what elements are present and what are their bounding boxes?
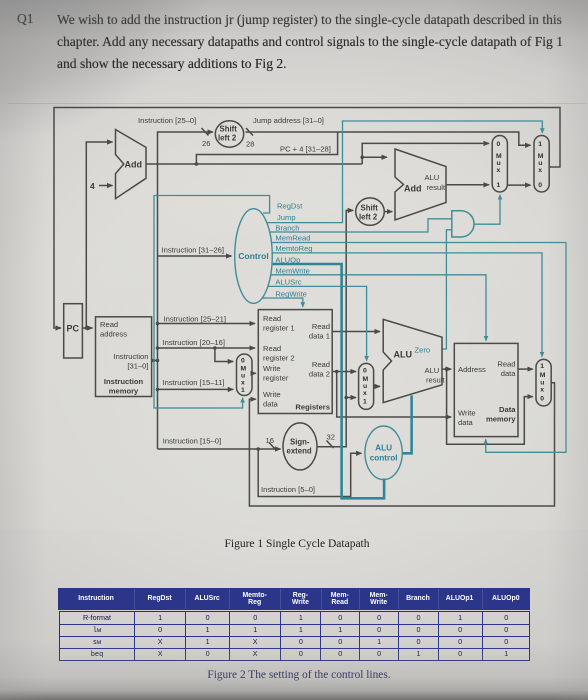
wire Add2 branch target output to branch mux input 1 (446, 184, 489, 186)
label mux mem-to-reg (540, 363, 546, 403)
svg-text:data 1: data 1 (309, 332, 330, 341)
label bit width 28 (246, 140, 254, 149)
node instruction 25-21 tap (156, 322, 160, 326)
svg-text:Address: Address (458, 365, 486, 374)
svg-text:ALU: ALU (425, 366, 440, 375)
label Add1 (125, 160, 143, 170)
label Add2 (404, 184, 422, 194)
svg-text:data 2: data 2 (309, 370, 330, 379)
svg-text:16: 16 (266, 436, 274, 445)
svg-text:1: 1 (497, 182, 501, 189)
label registers ports (263, 314, 330, 412)
table header row (58, 588, 530, 610)
svg-text:[31–0]: [31–0] (127, 362, 148, 371)
sign extend oval (283, 423, 317, 470)
label shift left 2 jump (218, 125, 237, 143)
wire ALUOp control bus to ALU control (272, 264, 384, 498)
svg-text:result: result (426, 376, 445, 385)
svg-text:u: u (363, 383, 367, 390)
svg-text:Instruction: Instruction (104, 377, 144, 386)
svg-text:M: M (538, 153, 544, 160)
svg-text:0: 0 (538, 182, 542, 189)
svg-text:Instruction [25–21]: Instruction [25–21] (164, 315, 226, 324)
wire ALU result around data memory to mem-to-reg mux input 0 (447, 369, 533, 444)
svg-text:register 2: register 2 (263, 354, 295, 363)
label ALUOp (275, 256, 300, 265)
svg-text:result: result (427, 183, 446, 192)
wire ALUSrc control to ALU source mux select (268, 286, 367, 360)
wire Jump control to jump mux select (267, 121, 543, 223)
node instruction 15-0 junction to opcode field (256, 447, 260, 451)
label mux ALU source (363, 368, 369, 406)
node PC+4 junction at adder output (195, 162, 199, 166)
label ALU control (370, 444, 398, 463)
svg-text:x: x (538, 167, 542, 174)
svg-text:Read: Read (100, 320, 118, 329)
label Branch (275, 224, 299, 233)
wire instruction memory output Instruction [31-0] (152, 360, 158, 362)
svg-text:RegWrite: RegWrite (275, 290, 307, 299)
wire read data 2 to data memory write data (337, 372, 452, 418)
wire ALU control output to ALU (402, 396, 411, 454)
svg-text:Instruction [5–0]: Instruction [5–0] (261, 485, 315, 494)
registers file (258, 310, 332, 414)
mux branch PCSrc (492, 136, 507, 193)
svg-text:Shift: Shift (361, 204, 379, 213)
svg-text:ALU: ALU (394, 350, 413, 360)
wire branch shift left 2 output to Add2 (384, 211, 392, 213)
svg-text:ALU: ALU (425, 173, 440, 182)
svg-text:1: 1 (538, 141, 542, 148)
bit-width slash 16 (269, 443, 276, 451)
node instruction 15-11 tap (156, 388, 160, 392)
adder Add2 branch target (395, 149, 446, 220)
label data memory ports (458, 360, 516, 428)
wire Add PC+4 output to Add2 and branch mux (146, 143, 489, 164)
label bit width 16 (266, 436, 274, 445)
svg-text:data: data (458, 418, 474, 427)
table row R-format (60, 612, 135, 624)
svg-text:Read: Read (312, 360, 330, 369)
label Jump address [31-0] (253, 116, 324, 125)
label MemWrite (275, 267, 309, 276)
wire Branch control to AND gate input (270, 219, 452, 232)
svg-text:MemWrite: MemWrite (275, 267, 309, 276)
node read data 2 junction (335, 370, 339, 374)
svg-text:M: M (496, 153, 502, 160)
svg-text:Data: Data (499, 405, 516, 414)
svg-text:data: data (501, 369, 517, 378)
label ALU result of Add2 (425, 173, 446, 192)
wire Instruction [20-16] to read register 2 (158, 347, 256, 349)
label bit width 26 (202, 139, 210, 148)
wire PC output to instruction memory read address (82, 327, 92, 329)
label RegWrite (275, 290, 307, 299)
wire AND gate output to branch mux select (473, 195, 500, 224)
wire read data 2 to ALU src mux input 0 (332, 371, 356, 373)
mux write register (237, 354, 253, 396)
svg-text:memory: memory (486, 415, 516, 424)
svg-text:0: 0 (363, 368, 367, 375)
svg-text:1: 1 (241, 387, 245, 394)
svg-text:Read: Read (497, 360, 515, 369)
svg-text:Registers: Registers (295, 403, 330, 412)
label Instruction [25-0] (138, 116, 196, 125)
svg-text:u: u (497, 160, 501, 167)
svg-text:address: address (100, 330, 127, 339)
node PC+4 junction before second adder (360, 155, 364, 159)
table row sw (60, 636, 135, 648)
AND gate branch (452, 211, 474, 237)
svg-text:1: 1 (540, 363, 544, 370)
wire Instruction [20-16] branch to write-register mux input 0 (215, 348, 233, 362)
svg-text:0: 0 (497, 141, 501, 148)
wire Instruction [5-0] to ALU control (258, 449, 361, 497)
svg-text:Add: Add (404, 184, 422, 194)
svg-text:u: u (540, 380, 544, 387)
label ALU (394, 350, 413, 360)
bit-width slash 26 (202, 128, 209, 136)
svg-text:ALUSrc: ALUSrc (275, 278, 301, 287)
svg-text:left 2: left 2 (359, 213, 378, 222)
svg-text:x: x (241, 380, 245, 387)
wire mem-to-reg mux output wrap-around to registers write data (249, 383, 554, 506)
wire RegDst control to write-register mux select (154, 196, 270, 409)
mux jump (534, 136, 549, 193)
wire Instruction [15-11] to write-register mux input 1 (158, 388, 234, 390)
label instruction memory ports (100, 320, 149, 396)
data memory (454, 343, 518, 436)
svg-text:Instruction [15–0]: Instruction [15–0] (163, 437, 221, 446)
wire RegWrite control to registers write enable (262, 298, 303, 307)
wire MemWrite control to data memory write port (271, 275, 486, 341)
mux mem-to-reg (536, 359, 551, 406)
wire sign extend output up to branch shift left 2 (317, 210, 353, 446)
node PC output junction (85, 326, 89, 330)
label Instruction [20-16] (163, 338, 225, 347)
label PC (67, 324, 80, 334)
wire ALU src mux output to ALU input (374, 385, 380, 387)
svg-text:x: x (363, 390, 367, 397)
wire data memory read data to mem-to-reg mux input 1 (518, 368, 533, 370)
wire MemtoReg control to mem-to-reg mux select (272, 253, 542, 357)
table body (59, 611, 530, 661)
node instruction bus junction dots (152, 359, 156, 363)
label Instruction [5-0] (261, 485, 315, 494)
wire MemRead control to data memory read port (272, 243, 567, 453)
svg-text:x: x (497, 167, 501, 174)
label Instruction [15-11] (163, 378, 225, 387)
svg-text:Write: Write (458, 409, 476, 418)
svg-text:control: control (370, 454, 398, 463)
wire PC to Add (PC+4) top input (86, 142, 112, 328)
node sign extend output junction to ALU mux (344, 396, 348, 400)
label sign extend (287, 438, 312, 456)
label shift left 2 branch (359, 204, 378, 222)
mux ALU source (359, 363, 374, 409)
label mux branch (496, 141, 502, 189)
wire Instruction [31-26] to Control (158, 255, 232, 257)
table row beq (60, 648, 135, 660)
svg-text:32: 32 (327, 433, 335, 442)
label mux jump (538, 141, 544, 189)
label RegDst (277, 202, 303, 211)
wire Instruction [25-21] to read register 1 (158, 323, 256, 325)
wire PC feedback loop from jump mux output around top to PC input (54, 108, 560, 329)
wire constant 4 into Add bottom input (99, 185, 113, 187)
svg-text:M: M (363, 376, 369, 383)
svg-text:x: x (540, 387, 544, 394)
wire Instruction [15-0] to sign extend (158, 448, 281, 450)
register PC (64, 304, 83, 358)
svg-text:M: M (540, 372, 546, 379)
svg-text:Read: Read (312, 322, 330, 331)
ALU control oval (365, 426, 402, 480)
instruction memory (96, 317, 152, 397)
svg-text:1: 1 (363, 399, 367, 406)
label Jump (277, 213, 296, 222)
svg-text:Read: Read (263, 344, 281, 353)
label Control (238, 251, 269, 261)
svg-text:u: u (241, 373, 245, 380)
wire ALU result to data memory address (442, 368, 451, 370)
label Instruction [31-26] (162, 246, 224, 255)
svg-text:ALU: ALU (375, 444, 392, 453)
svg-text:PC: PC (67, 324, 80, 334)
svg-text:Write: Write (263, 390, 281, 399)
ALU main (383, 319, 442, 402)
label mux write register (241, 358, 247, 395)
label PC + 4 [31-28] (280, 145, 331, 154)
svg-text:Sign-: Sign- (290, 438, 310, 447)
wire jump address [31-0] from shift left 2 to jump mux input 1 (246, 132, 531, 145)
wire instruction bus vertical Instruction [25-0] (158, 132, 214, 449)
svg-text:register: register (263, 374, 289, 383)
label ALUSrc (275, 278, 301, 287)
label MemtoReg (275, 244, 312, 253)
node ALU result junction (445, 367, 449, 371)
bit-width slash 32 (327, 441, 334, 449)
svg-text:Zero: Zero (415, 346, 431, 355)
adder Add1 PC+4 (116, 130, 147, 199)
wire write-register mux output to write register port (252, 372, 256, 374)
shift left 2 branch oval (356, 198, 385, 225)
control oval (235, 209, 273, 304)
svg-text:Instruction: Instruction (113, 352, 148, 361)
wire Zero flag from ALU to AND gate (442, 230, 452, 349)
wire read data 1 to ALU input (332, 331, 380, 333)
svg-text:Instruction [20–16]: Instruction [20–16] (163, 338, 225, 347)
svg-text:register 1: register 1 (263, 324, 295, 333)
svg-text:memory: memory (109, 387, 139, 396)
svg-text:Instruction [15–11]: Instruction [15–11] (163, 378, 225, 387)
svg-text:0: 0 (241, 358, 245, 365)
label ALU result (425, 366, 446, 385)
svg-text:data: data (263, 400, 279, 409)
shift left 2 jump oval (215, 121, 243, 147)
node instruction 20-16 tap (156, 346, 160, 350)
svg-text:0: 0 (540, 396, 544, 403)
label Zero (415, 346, 431, 355)
label bit width 32 (327, 433, 335, 442)
svg-text:extend: extend (287, 447, 312, 456)
wire PC+4 [31-28] tap to jump address (196, 132, 337, 164)
svg-text:u: u (538, 160, 542, 167)
bit-width slash 28 (246, 128, 253, 136)
svg-text:Write: Write (263, 364, 281, 373)
label MemRead (275, 234, 310, 243)
svg-text:M: M (241, 366, 247, 373)
label Instruction [25-21] (164, 315, 226, 324)
node instruction 20-16 junction (213, 346, 217, 350)
label Instruction [15-0] (163, 437, 221, 446)
label constant 4 (90, 181, 95, 191)
wire branch mux output to jump mux input 0 (507, 184, 530, 186)
wire sign extend branch to ALU src mux input 1 (346, 397, 356, 399)
table row lw (60, 624, 135, 636)
svg-text:Read: Read (263, 314, 281, 323)
